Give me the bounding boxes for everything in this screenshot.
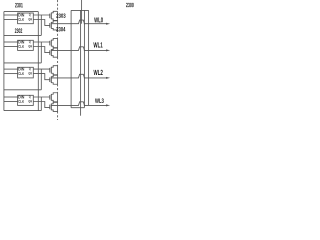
- wire CLK input U3: [4, 73, 18, 75]
- wire vertical V1: [70, 10, 72, 107]
- wire word line WL1: [51, 47, 107, 51]
- capacitor C4: [50, 48, 58, 57]
- wire QB output U1: [33, 20, 50, 26]
- capacitor C5: [50, 66, 58, 75]
- label 2304: [56, 27, 65, 31]
- label 2301: [15, 3, 23, 8]
- wire bottom feed loop: [4, 110, 41, 112]
- node 2303/2304 rail solid segments: [57, 11, 59, 111]
- wire Q output U4: [33, 96, 50, 98]
- capacitor C8: [50, 102, 58, 111]
- wire stage 4 feed loop: [4, 89, 41, 91]
- wire left vertical bus: [3, 12, 5, 111]
- capacitor C1: [50, 11, 58, 20]
- wire DIN input U2: [4, 41, 18, 43]
- label WL1: [93, 42, 102, 47]
- junction dot WL1: [84, 50, 85, 51]
- label WL2: [94, 70, 103, 75]
- flip-flop U4: [18, 95, 34, 105]
- wire Q output U1: [33, 14, 50, 16]
- flip-flop U1: [18, 13, 34, 24]
- wire stem from top: [81, 0, 83, 24]
- wire dashed boundary line: [57, 0, 59, 120]
- junction dot WL0: [84, 23, 85, 24]
- wire Q drop stage 4: [40, 97, 42, 111]
- label 2300: [126, 3, 134, 8]
- wire Q drop stage 3: [40, 69, 42, 90]
- wire CLK input U4: [4, 101, 18, 103]
- wire Q drop stage 2: [40, 42, 42, 63]
- wire Q output U2: [33, 41, 50, 43]
- wire word line WL0: [51, 20, 107, 24]
- wire QB output U2: [33, 47, 50, 53]
- capacitor C2: [50, 21, 58, 30]
- label WL0: [94, 17, 103, 22]
- wire word line WL2: [51, 74, 107, 78]
- junction dot WL2: [84, 77, 85, 78]
- wire right leg vertical: [37, 12, 39, 111]
- wire QB output U4: [33, 102, 50, 108]
- junction dot WL3: [84, 105, 85, 106]
- flip-flop U3: [18, 67, 34, 78]
- wire Q output U3: [33, 68, 50, 70]
- wire DIN input U4: [4, 96, 18, 98]
- wire bottom dogleg: [71, 107, 84, 109]
- wire CLK input U2: [4, 46, 18, 48]
- wire DIN input U1: [4, 14, 18, 16]
- wire stage 3 feed loop: [4, 62, 41, 64]
- flip-flop U2: [18, 40, 34, 50]
- wire word line WL3: [51, 102, 107, 106]
- capacitor C6: [50, 75, 58, 84]
- wire QB output U3: [33, 74, 50, 80]
- wire stage 2 feed loop: [4, 34, 41, 36]
- wire top bar: [71, 9, 89, 11]
- wire vertical V3: [83, 10, 85, 107]
- capacitor C3: [50, 39, 58, 48]
- label 2302: [15, 28, 22, 33]
- wire Q drop stage 1: [40, 15, 42, 35]
- wire DIN input U3: [4, 68, 18, 70]
- wire vertical V4: [88, 10, 90, 105]
- label WL3: [95, 98, 104, 103]
- capacitor C7: [50, 93, 58, 102]
- wire stage 1 feed loop: [4, 11, 38, 13]
- wire CLK input U1: [4, 19, 18, 21]
- label 2303: [56, 14, 65, 18]
- wire vertical V2: [80, 10, 82, 115]
